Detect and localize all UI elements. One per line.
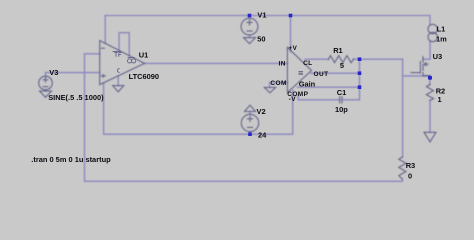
svg-text:Gain: Gain — [299, 79, 316, 88]
svg-text:50: 50 — [257, 35, 265, 44]
svg-text:LTC6090: LTC6090 — [129, 72, 159, 81]
svg-text:24: 24 — [258, 131, 267, 140]
svg-text:C1: C1 — [337, 88, 347, 97]
svg-text:V1: V1 — [257, 11, 266, 20]
svg-text:U1: U1 — [139, 51, 149, 60]
svg-text:V2: V2 — [257, 107, 266, 116]
svg-text:U3: U3 — [433, 52, 443, 61]
svg-text:V3: V3 — [49, 68, 58, 77]
svg-text:1m: 1m — [436, 34, 447, 43]
svg-text:L1: L1 — [437, 25, 446, 34]
svg-text:R1: R1 — [333, 46, 343, 55]
svg-text:IN: IN — [279, 61, 286, 68]
svg-text:0: 0 — [408, 172, 412, 181]
svg-text:+V: +V — [288, 45, 297, 52]
svg-text:COM: COM — [270, 80, 286, 87]
svg-text:5: 5 — [340, 61, 344, 70]
svg-text:R3: R3 — [406, 161, 416, 170]
svg-text:CL: CL — [303, 60, 312, 67]
svg-text:SINE(.5 .5 1000): SINE(.5 .5 1000) — [48, 93, 104, 102]
svg-text:10p: 10p — [335, 105, 348, 114]
svg-text:1: 1 — [438, 95, 442, 104]
svg-text:.tran 0 5m 0 1u startup: .tran 0 5m 0 1u startup — [31, 155, 111, 164]
svg-text:-V: -V — [289, 96, 297, 103]
svg-text:OUT: OUT — [314, 71, 329, 78]
